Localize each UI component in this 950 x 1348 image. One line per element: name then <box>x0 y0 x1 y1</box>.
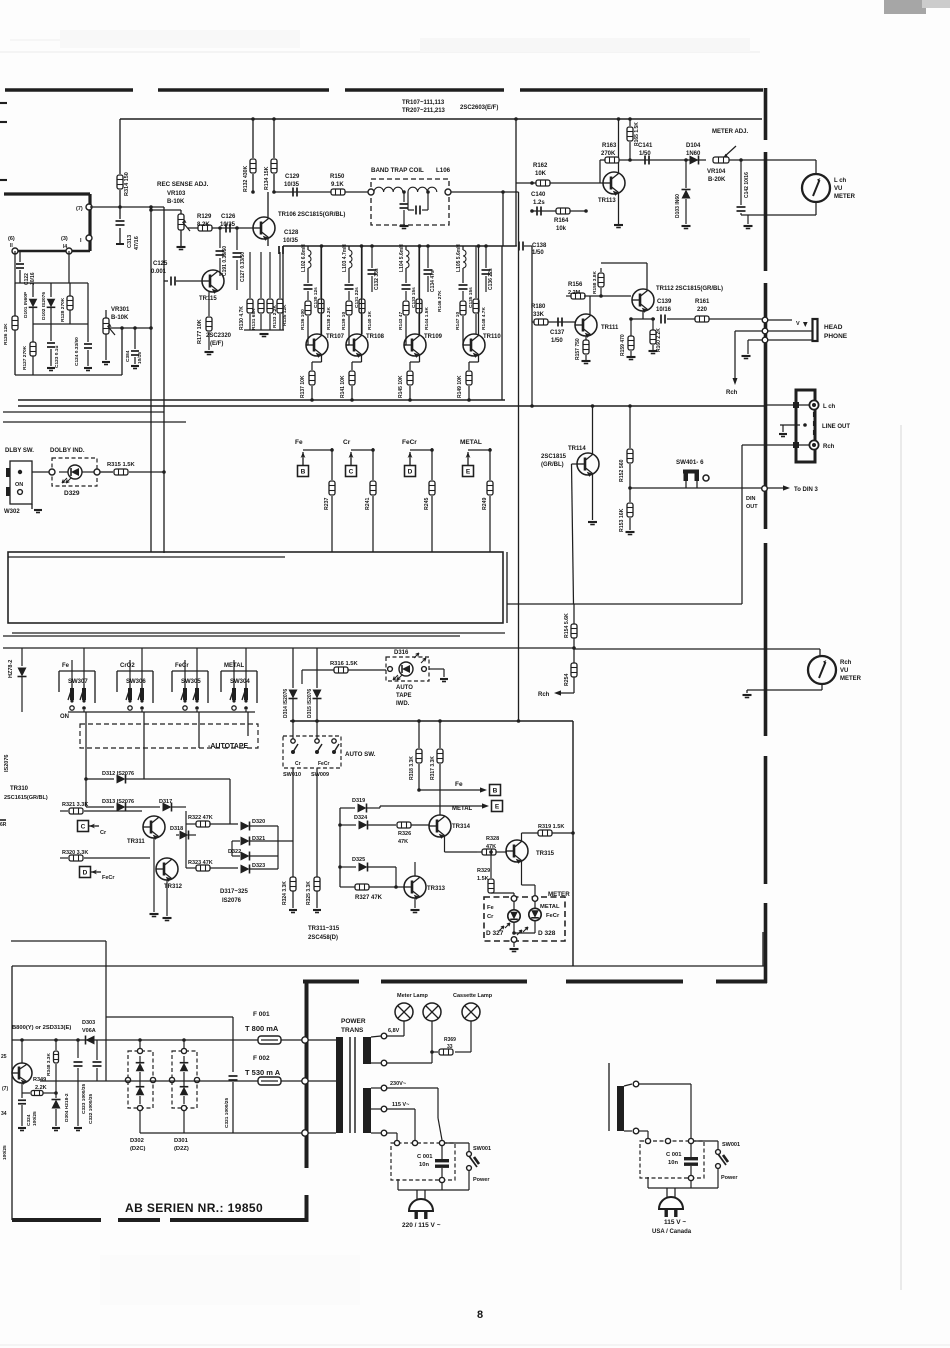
wire upper-left heavy corner <box>4 192 90 195</box>
svg-text:Power: Power <box>473 1177 490 1183</box>
svg-text:SW304: SW304 <box>230 679 250 685</box>
capacitor C125 0.001 <box>164 280 168 282</box>
tag C lower <box>78 821 89 832</box>
svg-text:FeCr: FeCr <box>546 913 560 919</box>
inductor L106a <box>374 187 403 192</box>
svg-text:I4: I4 <box>63 244 67 250</box>
resistor R177 10K column <box>208 292 210 316</box>
svg-text:R139 10: R139 10 <box>341 312 347 330</box>
wire meter bottom <box>815 202 817 215</box>
resistor R325 3.3K <box>316 768 318 877</box>
svg-text:R131 68K: R131 68K <box>251 308 257 330</box>
svg-text:TR107: TR107 <box>326 334 345 340</box>
wire TR313 ground <box>414 898 416 908</box>
wire Rch meter feed <box>574 648 808 650</box>
jack Rch <box>809 440 818 449</box>
resistor R135 12K column <box>279 252 281 298</box>
svg-text:270K: 270K <box>601 151 616 157</box>
capacitor C138 1/50 <box>516 245 517 247</box>
svg-text:IS2076: IS2076 <box>222 898 242 904</box>
svg-text:R249: R249 <box>482 497 488 510</box>
wire TR112 emitter row <box>642 311 644 319</box>
svg-text:10/16: 10/16 <box>137 352 143 364</box>
upper-left box outline <box>15 282 88 284</box>
svg-text:C321 1000/25: C321 1000/25 <box>224 1098 230 1128</box>
resistor R316 1.5K <box>302 669 334 671</box>
svg-text:R127 270K: R127 270K <box>22 345 28 370</box>
terminal D316 left <box>388 667 393 672</box>
wire switch bottom rail <box>68 711 255 713</box>
wire lower block right edge <box>572 721 574 966</box>
resistor R180 33K <box>534 319 548 325</box>
resistor R237 <box>329 481 335 495</box>
LED D329 <box>68 465 82 479</box>
wire rail y=941 <box>11 940 106 942</box>
wire rail y=412 <box>3 411 164 413</box>
svg-text:R129: R129 <box>197 214 212 220</box>
svg-text:T 800 mA: T 800 mA <box>245 1024 279 1033</box>
svg-text:10/16: 10/16 <box>656 307 672 313</box>
svg-text:D322: D322 <box>228 849 241 855</box>
LED D316 <box>399 662 413 676</box>
svg-text:C384: C384 <box>125 350 131 362</box>
svg-text:TR207~211,213: TR207~211,213 <box>402 108 446 114</box>
svg-text:TR315: TR315 <box>536 851 555 857</box>
wire SW307 drop <box>85 712 87 807</box>
resistor R144 <box>418 246 420 298</box>
tag B lower <box>490 785 501 796</box>
switch SW304 <box>221 670 257 672</box>
wire power box bottom border <box>12 1218 101 1222</box>
terminal band trap right <box>445 189 451 195</box>
transistor TR314 <box>429 815 451 837</box>
wire usa core line <box>608 1063 610 1131</box>
svg-text:1/50: 1/50 <box>532 250 544 256</box>
terminal headphone 2 <box>762 328 768 334</box>
svg-text:TRANS: TRANS <box>341 1027 364 1034</box>
resistor R328 47K <box>477 851 482 853</box>
svg-text:33: 33 <box>447 1044 453 1050</box>
svg-text:C132 33s: C132 33s <box>374 268 380 290</box>
inductor L104 <box>405 246 407 250</box>
svg-text:10/35: 10/35 <box>284 182 300 188</box>
transformer secondary lower <box>363 1088 371 1133</box>
capacitor C001 usa box <box>640 1141 704 1178</box>
wire collector TR109 <box>419 246 421 335</box>
svg-text:L ch: L ch <box>834 178 847 184</box>
wire TR311/312 grounds <box>153 838 155 912</box>
svg-text:10K: 10K <box>535 171 547 177</box>
svg-text:ON: ON <box>15 482 23 488</box>
svg-text:C127 0.33/50: C127 0.33/50 <box>240 252 246 282</box>
svg-text:R159 470: R159 470 <box>620 334 626 356</box>
wire METAL out <box>380 805 484 807</box>
svg-text:R254: R254 <box>564 673 570 686</box>
terminal sec 230V <box>371 1087 381 1089</box>
svg-text:R132 430K: R132 430K <box>243 166 249 192</box>
capacitor C139 10/16 <box>660 315 662 324</box>
wire emitter TR107 <box>321 355 323 363</box>
svg-text:C129: C129 <box>285 174 300 180</box>
svg-text:C126: C126 <box>221 214 236 220</box>
wire rail y=1017 <box>106 1016 233 1018</box>
svg-text:10/35: 10/35 <box>283 238 299 244</box>
svg-text:VR104: VR104 <box>707 169 726 175</box>
wire headphone top + V arrow <box>768 319 792 321</box>
wire rail y=633 <box>12 632 505 634</box>
svg-text:C313: C313 <box>127 235 133 248</box>
capacitor C191 0.33/50 column <box>219 228 221 248</box>
svg-text:0.001: 0.001 <box>151 269 167 275</box>
svg-text:R137 10K: R137 10K <box>300 375 306 398</box>
svg-text:1N60: 1N60 <box>686 151 701 157</box>
svg-text:C138: C138 <box>532 243 547 249</box>
svg-text:TR311: TR311 <box>127 839 145 845</box>
resistor R153 16K <box>629 488 631 502</box>
wire x=106 drop <box>105 941 107 1081</box>
diode D324 <box>340 824 356 826</box>
resistor R163 270K <box>605 157 619 163</box>
transistor TR115 <box>202 270 224 292</box>
diode D318 <box>180 831 189 840</box>
transistor TR111 <box>575 314 597 336</box>
resistor R139 <box>346 301 352 315</box>
wire lineout L <box>591 405 593 406</box>
svg-text:V: V <box>796 321 800 327</box>
svg-text:115 V ~: 115 V ~ <box>664 1219 686 1226</box>
svg-text:TR111: TR111 <box>601 325 619 331</box>
svg-text:8.2K: 8.2K <box>197 222 210 228</box>
inductor L106b <box>408 187 437 192</box>
svg-text:D317~325: D317~325 <box>220 889 249 895</box>
wire drop B <box>331 448 333 480</box>
svg-text:REC SENSE ADJ.: REC SENSE ADJ. <box>157 181 209 188</box>
svg-text:R369: R369 <box>444 1037 456 1043</box>
svg-text:R318 3.3K: R318 3.3K <box>409 756 415 780</box>
terminal LED right <box>532 896 538 902</box>
terminal (3) <box>66 248 72 254</box>
svg-text:C141: C141 <box>638 143 653 149</box>
svg-text:R126 12K: R126 12K <box>3 323 9 345</box>
wire SW306 drop <box>143 712 145 779</box>
wire TR106 base row <box>188 227 253 229</box>
svg-text:R241: R241 <box>365 497 371 510</box>
svg-text:L103 4.7mH: L103 4.7mH <box>342 244 348 272</box>
svg-text:R163: R163 <box>602 143 617 149</box>
wire SW305 drop <box>198 712 200 748</box>
transformer secondary upper <box>363 1037 371 1064</box>
lamp meter 1 <box>395 1003 413 1021</box>
svg-text:METAL: METAL <box>452 806 473 812</box>
svg-text:TR310: TR310 <box>10 786 29 792</box>
svg-text:V06A: V06A <box>82 1028 96 1034</box>
terminal primary 2 <box>302 1078 308 1084</box>
svg-text:2SC458(D): 2SC458(D) <box>308 935 338 941</box>
svg-text:USA / Canada: USA / Canada <box>652 1229 692 1235</box>
wire bottom rail y=1133 <box>140 1132 302 1134</box>
wire 230V to C001 <box>387 1087 438 1089</box>
wire lower bus y=721 <box>290 720 573 722</box>
resistor R161 220 <box>695 316 709 322</box>
svg-text:C134 47s: C134 47s <box>430 270 436 292</box>
svg-text:AB SERIEN NR.: 19850: AB SERIEN NR.: 19850 <box>125 1201 263 1215</box>
resistor R165 1.5K <box>629 119 631 126</box>
svg-text:TR115: TR115 <box>199 296 217 302</box>
wire R315 to net <box>129 471 164 473</box>
wire (7) to rail <box>90 206 164 208</box>
svg-text:D101 IN60P: D101 IN60P <box>23 291 29 318</box>
wire filter box left edge <box>282 246 284 330</box>
wire TR113 base drop <box>599 160 601 183</box>
svg-text:R145 10K: R145 10K <box>398 375 404 398</box>
bridge D302 (D2C) <box>128 1051 153 1108</box>
svg-text:(D2C): (D2C) <box>130 1146 146 1152</box>
svg-text:R326: R326 <box>398 831 411 837</box>
svg-text:Cr: Cr <box>343 439 351 446</box>
svg-text:AUTO: AUTO <box>396 685 413 691</box>
resistor R150 9.1K <box>331 189 345 195</box>
svg-text:TR106 2SC1815(GR/BL): TR106 2SC1815(GR/BL) <box>278 212 345 218</box>
wire TR106 emitter <box>267 239 269 246</box>
resistor R318 3.3K <box>418 721 420 748</box>
svg-text:(7): (7) <box>2 1086 8 1092</box>
svg-text:R327 47K: R327 47K <box>355 895 383 901</box>
svg-text:R146 27K: R146 27K <box>437 290 443 312</box>
lamp cassette <box>462 1003 480 1021</box>
svg-text:To DIN 3: To DIN 3 <box>794 487 819 493</box>
svg-text:R160 2.2K: R160 2.2K <box>656 328 662 352</box>
svg-text:T 530 m A: T 530 m A <box>245 1068 281 1077</box>
svg-text:L105 5.6mH: L105 5.6mH <box>456 244 462 272</box>
svg-text:R157 750: R157 750 <box>575 338 581 360</box>
wire left edge x=12 <box>11 966 13 1220</box>
svg-text:R317 3.3K: R317 3.3K <box>430 756 436 780</box>
wire C138 to TR111 column <box>524 245 532 247</box>
wire SW307 drops <box>71 660 73 684</box>
svg-text:34: 34 <box>1 1111 7 1117</box>
svg-text:R148 4.7K: R148 4.7K <box>481 307 487 330</box>
svg-text:R128 270K: R128 270K <box>60 297 66 322</box>
usa transformer winding <box>617 1086 624 1131</box>
wire Fe out <box>419 789 482 791</box>
svg-text:Cr: Cr <box>295 761 301 767</box>
svg-text:Rch: Rch <box>538 692 550 698</box>
diode D104 1N60 <box>690 156 699 165</box>
wire primary taps <box>308 1039 336 1041</box>
resistor R324 3.3K <box>292 768 294 877</box>
wire secondary rail y=1081 <box>40 1080 302 1082</box>
svg-text:R134 15K: R134 15K <box>264 166 270 190</box>
wire TR315 emitter <box>521 862 523 886</box>
svg-text:(6): (6) <box>8 236 15 242</box>
potentiometer VR103 <box>178 214 184 230</box>
capacitor C132 33n <box>371 246 373 268</box>
wire regulator <box>21 1040 23 1063</box>
svg-text:10k: 10k <box>556 226 567 232</box>
svg-text:B800(Y) or 2SD313(E): B800(Y) or 2SD313(E) <box>12 1025 71 1031</box>
resistor R319 1.5K <box>538 830 552 836</box>
capacitor C324 100/25 <box>21 1093 23 1098</box>
svg-text:R321 3.3K: R321 3.3K <box>62 802 88 808</box>
wire TR111 base <box>574 324 576 326</box>
scan blob top right <box>884 0 926 14</box>
svg-text:R315 1.5K: R315 1.5K <box>107 462 136 468</box>
wire power box left border <box>305 983 309 1168</box>
wire VR301 out <box>109 327 151 329</box>
band trap coil dashed box <box>371 179 449 225</box>
wire TR314 collector <box>414 862 416 876</box>
wire collector TR110 <box>478 246 480 335</box>
svg-text:1.2s: 1.2s <box>533 200 545 206</box>
resistor R140 <box>361 246 363 298</box>
svg-text:POWER: POWER <box>341 1018 366 1025</box>
svg-text:R245: R245 <box>424 497 430 510</box>
svg-text:SW307: SW307 <box>68 679 88 685</box>
svg-text:OUT: OUT <box>746 504 758 510</box>
svg-text:D104: D104 <box>686 143 701 149</box>
wire left bus x=340 <box>339 808 341 887</box>
jack Lch <box>809 400 818 409</box>
wire headphone bottom + ground <box>748 339 762 341</box>
terminal LED left <box>511 896 517 902</box>
wire TR113 emitter+ground <box>618 194 620 225</box>
svg-text:33K: 33K <box>533 312 545 318</box>
node E tag <box>463 466 474 477</box>
svg-text:D 328: D 328 <box>538 930 556 937</box>
svg-text:D325: D325 <box>352 857 365 863</box>
svg-text:FeCr: FeCr <box>102 875 115 881</box>
svg-text:C128: C128 <box>284 230 299 236</box>
wire TR114 collector <box>592 406 594 454</box>
svg-text:TAPE: TAPE <box>396 693 412 699</box>
svg-text:R149 10K: R149 10K <box>457 375 463 398</box>
wire link y=604 <box>507 603 742 605</box>
svg-text:(E/F): (E/F) <box>210 341 223 347</box>
transistor power regulator <box>12 1063 32 1083</box>
meter LED box D327 D328 <box>484 897 565 941</box>
terminal DIN border <box>762 486 768 492</box>
resistor R149 <box>468 362 470 370</box>
wire stub right x=763 <box>762 932 764 966</box>
svg-text:100/25: 100/25 <box>32 1111 38 1126</box>
AC plug main <box>409 1199 433 1211</box>
svg-text:C324: C324 <box>26 1114 32 1126</box>
line out connector box <box>796 390 815 462</box>
wire R180 row <box>532 321 575 323</box>
resistor R249 <box>487 481 493 495</box>
wire long vertical to lower block <box>518 192 520 721</box>
svg-text:R138 2.2K: R138 2.2K <box>326 307 332 330</box>
wire dolby row <box>32 471 52 473</box>
capacitor C130 <box>304 284 313 286</box>
svg-text:(D2Z): (D2Z) <box>174 1146 189 1152</box>
svg-text:C: C <box>81 824 86 831</box>
dolby board outline <box>8 552 503 623</box>
wire TR111 collector row <box>584 295 631 297</box>
svg-text:TR112 2SC1815(GR/BL): TR112 2SC1815(GR/BL) <box>656 286 723 292</box>
svg-text:6R: 6R <box>0 822 7 828</box>
wire drop into filter bus <box>502 192 504 246</box>
svg-text:TR313: TR313 <box>427 886 446 892</box>
svg-text:1/50: 1/50 <box>551 338 563 344</box>
svg-text:LINE OUT: LINE OUT <box>822 424 850 430</box>
svg-text:D320: D320 <box>252 819 265 825</box>
wire meter R bottom <box>821 684 823 690</box>
resistor R241 <box>370 481 376 495</box>
wire bottom rail to plug <box>468 1170 470 1190</box>
svg-text:R154 5.6K: R154 5.6K <box>564 613 570 638</box>
resistor R164 10k <box>556 208 570 214</box>
ground dolby switch <box>31 504 33 509</box>
svg-text:-AUTOTAPE: -AUTOTAPE <box>208 743 249 750</box>
ground meter <box>747 215 749 224</box>
svg-text:SW001: SW001 <box>722 1142 740 1148</box>
transistor TR112 <box>632 289 654 311</box>
terminal usa top <box>624 1084 632 1086</box>
resistor R127 270K <box>32 324 34 342</box>
svg-text:B: B <box>493 788 498 795</box>
LED D329 dashed box <box>52 458 97 486</box>
terminal sec 115V <box>371 1108 381 1110</box>
svg-text:TR107~111,113: TR107~111,113 <box>402 100 445 106</box>
headphone jack <box>813 319 818 341</box>
svg-text:METER: METER <box>840 676 862 682</box>
wire meter adj row y=160 <box>600 159 706 161</box>
terminal band trap left <box>368 189 374 195</box>
svg-text:D304 H218-2: D304 H218-2 <box>64 1093 70 1122</box>
svg-text:VR103: VR103 <box>167 191 186 197</box>
wire rail y=406 <box>18 405 765 407</box>
resistor R254 <box>573 649 575 663</box>
svg-text:C136 22s: C136 22s <box>488 268 494 290</box>
wire rail y=648 to Rch meter <box>3 647 574 649</box>
diode D320 <box>241 822 250 831</box>
capacitor C127 0.33/50 column <box>236 228 238 250</box>
wire top rail <box>120 118 762 120</box>
svg-text:SW009: SW009 <box>311 772 329 778</box>
svg-text:ON: ON <box>60 714 69 720</box>
wire collector TR108 <box>361 246 363 335</box>
svg-text:47K: 47K <box>486 844 496 850</box>
svg-text:R180: R180 <box>531 304 546 310</box>
svg-text:IS2076: IS2076 <box>4 755 10 772</box>
svg-text:D315 IS2076: D315 IS2076 <box>307 689 313 718</box>
resistor R327 47K <box>340 886 355 888</box>
wire TR315 collector <box>521 833 523 841</box>
svg-text:Cr: Cr <box>487 914 494 920</box>
wire lineout vertical link <box>741 445 743 604</box>
AC plug usa <box>659 1197 683 1209</box>
resistor R152 560 <box>629 406 631 448</box>
wire base TR108 <box>348 316 350 345</box>
inductor L105 <box>462 246 464 250</box>
wire rail y=422 <box>3 421 186 423</box>
svg-text:B: B <box>301 469 306 476</box>
svg-text:B-10K: B-10K <box>111 315 129 321</box>
capacitor band trap loop <box>407 192 409 210</box>
svg-text:Meter Lamp: Meter Lamp <box>397 993 429 999</box>
terminal LED bottom + ground <box>511 937 517 943</box>
resistor R130 4.7K column <box>249 252 251 298</box>
svg-text:R147 10: R147 10 <box>455 312 461 330</box>
svg-text:R164: R164 <box>554 218 569 224</box>
svg-text:R348 3.3K: R348 3.3K <box>46 1053 52 1076</box>
wire lamps <box>387 1035 404 1037</box>
svg-text:2.2M: 2.2M <box>568 290 581 296</box>
svg-text:METER: METER <box>834 194 856 200</box>
svg-text:R156: R156 <box>568 282 583 288</box>
resistor R245 <box>429 481 435 495</box>
